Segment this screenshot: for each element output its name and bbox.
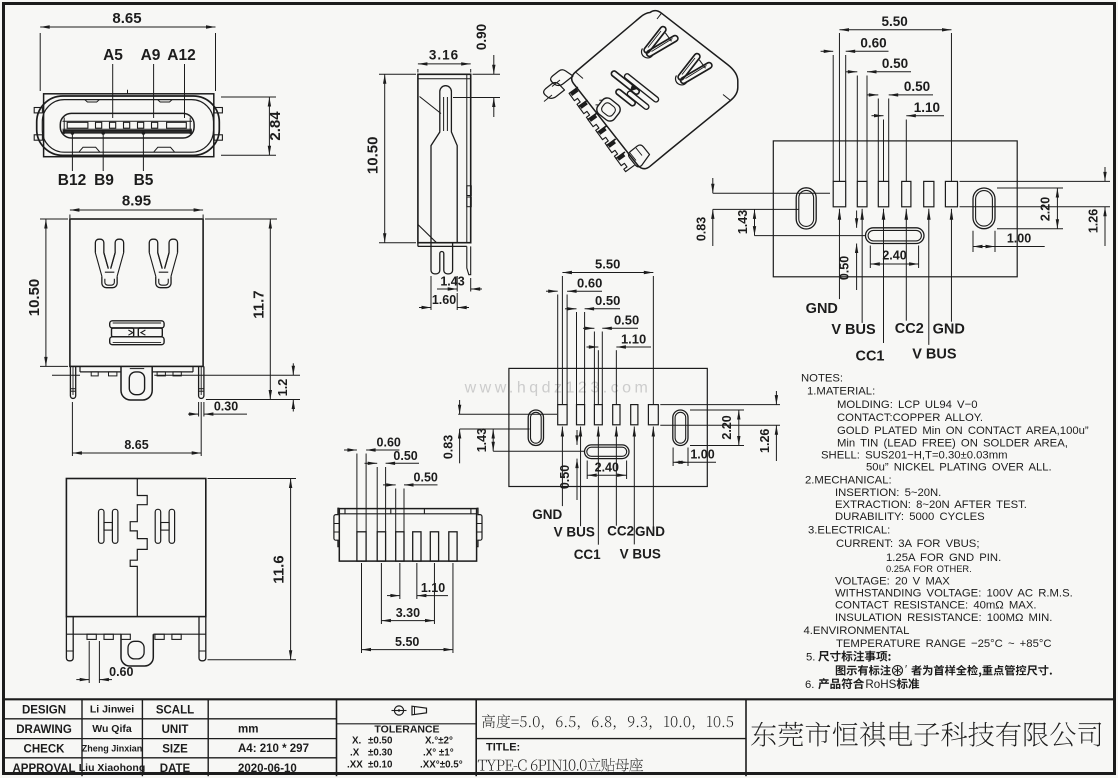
svg-text:′: ′ bbox=[905, 664, 907, 676]
rear view: solder tooth 5 bbox=[172, 634, 181, 639]
svg-text:A12: A12 bbox=[167, 47, 195, 64]
footprint F: dimension 1.43 bbox=[754, 209, 756, 235]
svg-text:APPROVAL: APPROVAL bbox=[12, 763, 75, 775]
svg-text:2.20: 2.20 bbox=[1039, 197, 1053, 221]
bottom view: terminal pin 6 bbox=[449, 532, 457, 561]
svg-text:A9: A9 bbox=[141, 47, 161, 64]
footprint G: pin leader GND1 bbox=[561, 427, 564, 437]
footprint G: pin leader VBUS5 bbox=[633, 427, 636, 437]
footprint G: right ext oval bottom bbox=[690, 445, 744, 447]
footprint F: pin leader CC1 bbox=[882, 209, 886, 220]
footprint F: pad 5 bbox=[924, 181, 934, 206]
back view: dimension 8.65 bottom bbox=[71, 402, 73, 456]
svg-text:0.60: 0.60 bbox=[577, 276, 602, 291]
side view: dimension 3.16 top bbox=[417, 69, 419, 73]
svg-text:0.50: 0.50 bbox=[393, 449, 417, 463]
svg-text:0.83: 0.83 bbox=[442, 435, 456, 459]
3d view: connector body outline bbox=[572, 11, 738, 169]
svg-text:50u” NICKEL PLATING OVER ALL.: 50u” NICKEL PLATING OVER ALL. bbox=[866, 462, 1052, 474]
front view: tongue outline bbox=[60, 113, 194, 138]
rear view: center shield tab bbox=[121, 634, 153, 666]
svg-text:DATE: DATE bbox=[160, 763, 191, 775]
back view: left mounting leg bbox=[70, 366, 75, 398]
side view: right edge bump lower bbox=[467, 197, 472, 207]
3d view: spring latch fork right bbox=[677, 52, 701, 81]
footprint F: dimension 0.60 bbox=[832, 55, 834, 181]
svg-text:CURRENT: 3A FOR VBUS;: CURRENT: 3A FOR VBUS; bbox=[836, 538, 979, 550]
svg-text:1.2: 1.2 bbox=[276, 379, 290, 396]
svg-text:X.: X. bbox=[352, 736, 362, 747]
svg-text:0.60: 0.60 bbox=[860, 36, 886, 51]
front view: tongue contact row top line bbox=[63, 120, 193, 122]
svg-text:0.30: 0.30 bbox=[214, 400, 238, 414]
svg-text:TITLE:: TITLE: bbox=[486, 742, 520, 754]
svg-text:Liu Xiaohong: Liu Xiaohong bbox=[79, 762, 146, 774]
footprint F: dimension 1.10 bbox=[883, 120, 885, 182]
svg-text:±0.50: ±0.50 bbox=[368, 736, 393, 747]
svg-text:1.10: 1.10 bbox=[914, 100, 940, 115]
svg-text:8.95: 8.95 bbox=[122, 193, 151, 210]
bottom view: terminal pin 5 bbox=[430, 532, 438, 561]
footprint F: pad 6 bbox=[945, 181, 957, 206]
footprint G: left oval hole bbox=[528, 410, 543, 446]
svg-text:±0.10: ±0.10 bbox=[368, 760, 393, 771]
footprint F: pad 3 bbox=[878, 181, 888, 206]
front view: leader line A9 bbox=[153, 64, 155, 118]
svg-text:CHECK: CHECK bbox=[24, 744, 66, 756]
footprint F: pin leader GND1 bbox=[838, 209, 842, 220]
svg-text:RoHS: RoHS bbox=[865, 678, 896, 691]
front view: right side tab upper bbox=[214, 108, 222, 113]
title block: projection symbol bbox=[394, 706, 403, 715]
svg-text:6.: 6. bbox=[805, 679, 814, 691]
back view: solder tooth 3 bbox=[157, 372, 165, 376]
back view: solder tooth 2 bbox=[109, 372, 117, 376]
footprint F: pad 4 bbox=[902, 181, 911, 206]
svg-text:0.25A FOR OTHER.: 0.25A FOR OTHER. bbox=[886, 564, 972, 574]
svg-text:1.26: 1.26 bbox=[1087, 209, 1101, 233]
footprint F: dimension 1.00 bbox=[972, 231, 974, 252]
svg-text:0.50: 0.50 bbox=[558, 465, 572, 489]
svg-text:±0.30: ±0.30 bbox=[368, 748, 393, 759]
footprint G: pin leader GND6 bbox=[652, 427, 655, 437]
footprint F: pin leader VBUS2 bbox=[860, 209, 864, 220]
svg-text:1.43: 1.43 bbox=[736, 210, 750, 234]
rear view: right side wing bbox=[199, 617, 206, 661]
svg-text:1.43: 1.43 bbox=[475, 428, 489, 452]
3d view: top face edge lines bbox=[576, 13, 731, 100]
footprint G: PCB outline rectangle bbox=[509, 368, 707, 486]
footprint F: pin leader VBUS5 bbox=[927, 209, 931, 220]
svg-text:B5: B5 bbox=[134, 172, 154, 189]
svg-text:B9: B9 bbox=[94, 172, 114, 189]
back view: dimension 10.50 left bbox=[40, 218, 68, 220]
3d view: center latch dimple feature bbox=[603, 65, 659, 116]
side view: contact pin inner slot bbox=[444, 97, 448, 131]
svg-text:2.40: 2.40 bbox=[882, 249, 906, 263]
svg-text:SIZE: SIZE bbox=[162, 744, 188, 756]
footprint G: dimension 1.43 bbox=[492, 429, 494, 451]
svg-text:CC2: CC2 bbox=[607, 524, 634, 539]
svg-text:WITHSTANDING VOLTAGE: 100V AC: WITHSTANDING VOLTAGE: 100V AC R.M.S. bbox=[835, 588, 1073, 600]
footprint F: right ext oval top bbox=[997, 187, 1063, 189]
side view: body top lip line bbox=[418, 78, 471, 80]
footprint G: dimension 5.50 bbox=[561, 276, 563, 405]
bottom view: dimension 0.50 pin2 bbox=[376, 467, 378, 532]
front view: shell inner stadium outline bbox=[42, 100, 213, 153]
svg-text:8.65: 8.65 bbox=[112, 10, 141, 27]
svg-text:0.50: 0.50 bbox=[414, 470, 438, 484]
footprint G: pad 1 bbox=[558, 405, 567, 425]
footprint F: pin leader GND6 bbox=[950, 209, 954, 220]
svg-text:1.60: 1.60 bbox=[432, 293, 456, 307]
3d view: serrated solder pin teeth bbox=[569, 87, 588, 107]
bottom view: terminal pin 2 bbox=[377, 532, 385, 561]
3d view: spring latch fork left bbox=[643, 25, 667, 54]
back view: bottom flange line bbox=[80, 371, 121, 373]
svg-text:Min TIN (LEAD FREE) ON SOLDER: Min TIN (LEAD FREE) ON SOLDER AREA, bbox=[837, 438, 1068, 450]
footprint F: pad 1 bbox=[833, 181, 846, 206]
footprint G: dimension 0.60 bbox=[557, 295, 559, 405]
svg-text:INSERTION: 5~20N.: INSERTION: 5~20N. bbox=[835, 487, 941, 499]
front view: right side tab lower bbox=[214, 135, 222, 140]
svg-text:0.50: 0.50 bbox=[595, 293, 620, 308]
side view: internal contact pin bbox=[431, 86, 457, 243]
svg-text:GND: GND bbox=[532, 507, 562, 522]
front view: tongue end cap line right bbox=[189, 118, 191, 135]
svg-text:DESIGN: DESIGN bbox=[22, 705, 66, 717]
svg-text:10.50: 10.50 bbox=[365, 137, 382, 175]
svg-text:V BUS: V BUS bbox=[912, 347, 957, 363]
svg-text:1.25A FOR GND PIN.: 1.25A FOR GND PIN. bbox=[886, 552, 1001, 564]
rear view: center shield seam with interlock notches bbox=[130, 479, 147, 617]
side view: dimension 1.43 bbox=[456, 276, 458, 292]
svg-text:1.10: 1.10 bbox=[621, 332, 646, 347]
side view: dimension 0.90 top-right bbox=[473, 73, 501, 75]
bottom view: dimension 3.30 bbox=[380, 563, 382, 624]
front view: leader line A12 bbox=[184, 64, 186, 118]
footprint G: dimension 1.10 bbox=[597, 350, 599, 404]
bottom view: left bumper bbox=[344, 509, 346, 514]
back view: dimension 0.30 bbox=[198, 402, 200, 417]
front view: bottom inner bump left bbox=[79, 147, 100, 152]
front view: leader line B5 bbox=[142, 132, 144, 172]
footprint G: left reference line oval center bbox=[460, 428, 530, 430]
svg-text:Zheng Jinxian: Zheng Jinxian bbox=[82, 744, 143, 754]
svg-text:0.50: 0.50 bbox=[882, 56, 908, 71]
svg-text:V BUS: V BUS bbox=[554, 525, 595, 540]
front view: bottom inner bump right bbox=[154, 147, 175, 152]
svg-text:.XX°±0.5°: .XX°±0.5° bbox=[420, 760, 463, 771]
svg-text:CC2: CC2 bbox=[895, 321, 924, 337]
front view: top inner notch right bbox=[158, 100, 172, 102]
front view: tongue contact square 2 bbox=[110, 122, 116, 128]
svg-text:GND: GND bbox=[635, 524, 665, 539]
front view: left side tab upper bbox=[34, 108, 42, 113]
svg-text:CC1: CC1 bbox=[855, 349, 884, 365]
svg-text:CONTACT:COPPER ALLOY.: CONTACT:COPPER ALLOY. bbox=[837, 412, 983, 424]
title block: row lines left section bbox=[4, 718, 337, 720]
back view: body rectangle bbox=[70, 219, 203, 366]
footprint G: dimension 2.40 bbox=[586, 461, 588, 480]
svg-text:Wu Qifa: Wu Qifa bbox=[92, 723, 132, 735]
footprint F: right ext oval bottom bbox=[997, 228, 1063, 230]
footprint G: pin leader VBUS2 bbox=[579, 427, 582, 437]
rear view: dimension 11.6 right bbox=[208, 478, 297, 480]
svg-text:1.26: 1.26 bbox=[758, 429, 772, 453]
svg-text:11.6: 11.6 bbox=[271, 555, 288, 583]
back view: dimension 1.2 right bbox=[154, 374, 300, 376]
rear view: solder tooth 4 bbox=[155, 634, 164, 639]
side view: dimension 1.60 bbox=[430, 276, 432, 310]
svg-text:1.00: 1.00 bbox=[690, 448, 714, 462]
rear view: left side wing bbox=[66, 617, 73, 661]
svg-text:3.ELECTRICAL:: 3.ELECTRICAL: bbox=[808, 525, 890, 537]
bottom view: terminal pin 4 bbox=[413, 532, 421, 561]
front view: shell outer stadium outline bbox=[37, 96, 220, 155]
footprint G: left reference line slot center bbox=[493, 450, 584, 452]
footprint G: pad 2 bbox=[577, 405, 585, 425]
svg-text:0.50: 0.50 bbox=[904, 79, 930, 94]
svg-text:10.50: 10.50 bbox=[26, 279, 43, 317]
svg-text:3.30: 3.30 bbox=[396, 606, 420, 620]
svg-text:1.00: 1.00 bbox=[1007, 232, 1031, 246]
back view: spring latch fork left bbox=[95, 239, 108, 269]
footprint G: dimension 0.50 pad3 bbox=[593, 332, 595, 405]
svg-text:mm: mm bbox=[238, 724, 258, 736]
svg-text:NOTES:: NOTES: bbox=[801, 373, 843, 385]
front view: tongue contact square 3 bbox=[124, 122, 130, 128]
title block: tolerance header line bbox=[337, 723, 477, 725]
back view: center latch dimple feature bbox=[110, 321, 164, 328]
svg-text:GOLD PLATED Min ON CONTACT ARE: GOLD PLATED Min ON CONTACT AREA,100u” bbox=[837, 425, 1089, 437]
title block: column lines bbox=[81, 699, 83, 776]
footprint G: center slot bbox=[585, 445, 630, 459]
svg-text:V BUS: V BUS bbox=[831, 322, 876, 338]
title block: company name (Chinese) bbox=[751, 722, 1101, 747]
bottom view: top notch tick 1 bbox=[390, 509, 392, 514]
svg-text:A4: 210 * 297: A4: 210 * 297 bbox=[238, 743, 309, 755]
side view: right wall tab below bbox=[467, 246, 471, 274]
front view: dimension 2.84 right bbox=[221, 96, 276, 98]
back view: right mounting leg bbox=[199, 366, 204, 398]
back view: solder tooth 1 bbox=[91, 372, 98, 376]
rear view: solder tooth 2 bbox=[104, 634, 113, 639]
side view: shell corner diagonal bottom bbox=[418, 225, 437, 243]
svg-text:TEMPERATURE RANGE −25°C ~ +85°: TEMPERATURE RANGE −25°C ~ +85°C bbox=[836, 638, 1052, 650]
svg-text:5.50: 5.50 bbox=[595, 257, 620, 272]
back view: center tab well bbox=[121, 366, 152, 400]
svg-text:B12: B12 bbox=[58, 172, 86, 189]
side view: right wall inner line bbox=[466, 74, 468, 242]
front view: leader line B12 bbox=[71, 132, 73, 172]
rear view: body rectangle bbox=[66, 479, 205, 617]
rear view: solder tooth 3 bbox=[121, 634, 130, 639]
footprint F: dimension 2.20 bbox=[1056, 188, 1058, 229]
svg-text:2020-06-10: 2020-06-10 bbox=[238, 763, 297, 775]
rear view: center shield tab hole bbox=[128, 641, 144, 659]
side view: bottom foot fork bbox=[431, 243, 453, 274]
bottom view: top notch tick 2 bbox=[423, 509, 425, 514]
svg-text:1.MATERIAL:: 1.MATERIAL: bbox=[807, 386, 875, 398]
footprint F: right ext pad6 bottom bbox=[960, 206, 1111, 208]
footprint G: dimension 1.00 bbox=[672, 448, 674, 467]
footprint F: center slot bbox=[866, 228, 925, 244]
svg-text:4.ENVIRONMENTAL: 4.ENVIRONMENTAL bbox=[804, 625, 910, 637]
svg-text:GND: GND bbox=[933, 322, 965, 338]
footprint G: dimension 0.50 pad2 bbox=[576, 312, 578, 405]
footprint F: left reference line oval top bbox=[713, 192, 830, 194]
rear view: dimension 0.60 bottom bbox=[88, 641, 90, 683]
svg-text:2.20: 2.20 bbox=[720, 415, 734, 439]
footprint F: dimension 0.50 slot bbox=[856, 211, 858, 228]
front view: top inner notch left bbox=[85, 100, 99, 102]
svg-text:SHELL: SUS201−H,T=0.30±0.03mm: SHELL: SUS201−H,T=0.30±0.03mm bbox=[821, 450, 1008, 462]
bottom view: dimension 0.60 bbox=[356, 454, 358, 532]
footprint G: right oval hole bbox=[673, 410, 688, 446]
svg-text:X.°±2°: X.°±2° bbox=[425, 736, 453, 747]
footprint G: left reference line oval top bbox=[458, 413, 557, 415]
svg-text:.X° ±1°: .X° ±1° bbox=[423, 748, 454, 759]
footprint G: right ext pad6 bottom bbox=[660, 424, 780, 426]
svg-text:MOLDING: LCP UL94 V−0: MOLDING: LCP UL94 V−0 bbox=[837, 399, 977, 411]
svg-text:0.60: 0.60 bbox=[377, 436, 401, 450]
front view: tongue wide contact pad right bbox=[167, 122, 187, 128]
footprint F: left reference line oval center bbox=[713, 208, 799, 210]
footprint G: pin leader CC1 bbox=[597, 427, 600, 437]
title block: title row divider bbox=[476, 738, 746, 740]
bottom view: body rectangle bbox=[339, 509, 476, 561]
bottom view: dimension 1.10 bbox=[399, 563, 401, 599]
footprint F: dimension 1.26 bbox=[1104, 167, 1106, 181]
svg-text:1.43: 1.43 bbox=[440, 275, 464, 289]
footprint G: right ext pad6 top bbox=[660, 404, 780, 406]
rear view: solder tooth 1 bbox=[87, 634, 96, 639]
side view: shell corner diagonal top bbox=[420, 97, 442, 114]
footprint F: left reference line slot center bbox=[755, 235, 867, 237]
side view: dimension 10.50 left bbox=[379, 73, 416, 75]
side view: right edge bump upper bbox=[467, 186, 472, 196]
front view: left side tab lower bbox=[34, 135, 42, 140]
footprint G: pad 4 bbox=[613, 405, 620, 425]
svg-text:INSULATION RESISTANCE: 100MΩ M: INSULATION RESISTANCE: 100MΩ MIN. bbox=[835, 612, 1052, 624]
svg-text:3.16: 3.16 bbox=[429, 48, 459, 63]
rear view: bottom flange line bbox=[66, 633, 121, 635]
bottom view: dimension 0.50 pin3 bbox=[395, 489, 397, 532]
svg-text:0.90: 0.90 bbox=[474, 24, 489, 50]
footprint G: pin leader CC2 bbox=[615, 427, 619, 437]
side view: body outline bbox=[418, 74, 471, 242]
svg-text:0.83: 0.83 bbox=[695, 217, 709, 241]
back view: dimension 8.95 top bbox=[69, 215, 71, 219]
3d view: bottom mounting foot bbox=[629, 145, 650, 167]
rear view: H-shaped window left bbox=[99, 509, 105, 543]
footprint F: left oval hole bbox=[796, 188, 816, 229]
footprint G: pad 5 bbox=[631, 405, 638, 425]
svg-text:VOLTAGE: 20 V MAX: VOLTAGE: 20 V MAX bbox=[835, 576, 950, 588]
front view: tongue contact square 5 bbox=[152, 122, 158, 128]
rear view: H-shaped window right bbox=[155, 509, 161, 543]
footprint F: dimension 2.40 bbox=[869, 246, 871, 269]
svg-text:Li Jinwei: Li Jinwei bbox=[90, 704, 134, 716]
title block: height options line (Chinese) bbox=[482, 714, 733, 729]
back view: center shield tab bbox=[129, 372, 144, 395]
back view: solder tooth 4 bbox=[173, 372, 181, 376]
footprint F: dimension 0.83 bbox=[712, 178, 714, 193]
svg-text:0.60: 0.60 bbox=[109, 665, 133, 679]
svg-text:8.65: 8.65 bbox=[124, 438, 148, 452]
svg-text:5.: 5. bbox=[806, 652, 815, 664]
footprint G: dimension 1.26 bbox=[775, 391, 777, 405]
title block: part title TYPE-C 6PIN10.0 (Chinese) bbox=[478, 758, 643, 772]
back view: spring latch fork right bbox=[149, 239, 162, 269]
side view: body bottom base line bbox=[418, 245, 467, 247]
back view: dimension 11.7 right bbox=[205, 218, 277, 220]
front view: tongue lower thick bar bbox=[63, 130, 192, 133]
svg-text:0.50: 0.50 bbox=[614, 313, 639, 328]
front view: tongue contact square 1 bbox=[96, 122, 102, 128]
front view: tongue contact square 4 bbox=[138, 122, 144, 128]
3d view: shield tab hole bbox=[592, 94, 622, 123]
footprint F: dimension 0.50 pad2 bbox=[856, 76, 858, 182]
svg-text:UNIT: UNIT bbox=[162, 724, 189, 736]
front view: shell flange rectangle bbox=[44, 94, 214, 157]
footprint F: right ext pad6 top bbox=[960, 180, 1111, 182]
svg-text:CONTACT RESISTANCE: 40mΩ MAX.: CONTACT RESISTANCE: 40mΩ MAX. bbox=[835, 600, 1037, 612]
3d view: left mounting feet pair bbox=[551, 70, 573, 86]
svg-text:EXTRACTION: 8~20N AFTER TEST.: EXTRACTION: 8~20N AFTER TEST. bbox=[835, 499, 1027, 511]
footprint F: PCB outline rectangle bbox=[773, 141, 1017, 277]
svg-text:.XX: .XX bbox=[347, 760, 363, 771]
svg-text:5.50: 5.50 bbox=[395, 635, 419, 649]
svg-text:CC1: CC1 bbox=[574, 547, 601, 562]
footprint F: pad 2 bbox=[857, 181, 867, 206]
front view: tongue wide contact pad left bbox=[67, 122, 88, 128]
title block: top border line bbox=[4, 698, 1115, 700]
front view: tongue contact row bottom line bbox=[63, 128, 193, 130]
footprint F: pin leader CC2 bbox=[905, 209, 909, 220]
svg-text:.X: .X bbox=[350, 748, 360, 759]
svg-text:2.MECHANICAL:: 2.MECHANICAL: bbox=[805, 475, 892, 487]
front view: dimension 8.65 top bbox=[39, 33, 41, 91]
footprint F: right oval hole bbox=[973, 188, 995, 229]
footprint G: dimension 2.20 bbox=[738, 410, 740, 446]
footprint G: pad 6 bbox=[648, 405, 658, 425]
bottom view: top strip line bbox=[339, 513, 476, 515]
footprint G: dimension 0.50 slot bbox=[576, 430, 578, 445]
svg-text:V BUS: V BUS bbox=[620, 546, 661, 561]
footprint G: dimension 0.83 bbox=[459, 400, 461, 414]
svg-text:DRAWING: DRAWING bbox=[16, 724, 72, 736]
svg-text:A5: A5 bbox=[103, 47, 123, 64]
footprint G: pad 3 bbox=[594, 405, 602, 425]
footprint G: right ext oval top bbox=[690, 409, 744, 411]
back view: flange extension line left bbox=[52, 374, 80, 376]
bottom view: right bumper bbox=[470, 509, 472, 514]
front view: leader line B9 bbox=[102, 132, 104, 172]
footprint F: dimension 5.50 bbox=[838, 33, 840, 181]
bottom view: terminal pin 3 bbox=[396, 532, 404, 561]
footprint F: dimension 0.50 pad3 bbox=[877, 99, 879, 182]
svg-text:DURABILITY: 5000 CYCLES: DURABILITY: 5000 CYCLES bbox=[835, 511, 985, 523]
svg-text:SCALL: SCALL bbox=[156, 705, 194, 717]
bottom view: dimension 5.50 bbox=[361, 563, 363, 653]
svg-text:1.10: 1.10 bbox=[421, 581, 445, 595]
front view: tongue end cap line left bbox=[63, 118, 65, 135]
svg-text:5.50: 5.50 bbox=[881, 14, 907, 29]
bottom view: terminal pin 1 bbox=[357, 532, 366, 561]
svg-text:2.84: 2.84 bbox=[267, 111, 284, 141]
